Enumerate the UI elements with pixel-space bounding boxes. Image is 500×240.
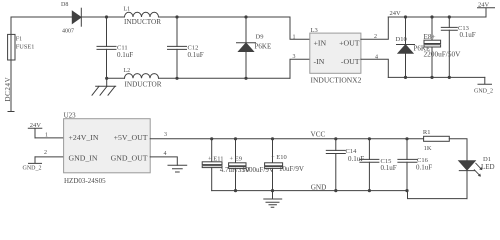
node junction C16 bottom [405, 189, 408, 192]
wire: top rail D8 to L1 [81, 16, 124, 18]
svg-text:2200uF/50V: 2200uF/50V [424, 50, 462, 59]
capacitor C12 [176, 17, 178, 46]
diode D9 (TVS) [245, 17, 247, 43]
wire: corner into pin3 [290, 59, 310, 78]
capacitor C15 [368, 139, 370, 160]
svg-text:3: 3 [164, 132, 167, 138]
svg-text:-IN: -IN [314, 57, 325, 66]
svg-text:F1: F1 [16, 37, 22, 43]
svg-text:2: 2 [374, 34, 377, 40]
port GND_2 right [478, 77, 492, 84]
wire: bottom-left rail [107, 77, 290, 79]
ground earth main [272, 191, 274, 199]
module L3 [310, 33, 361, 73]
node junction D10 top [404, 15, 407, 18]
port DC24V bar [8, 111, 14, 113]
wire: top rail L1 to corner x290 [159, 16, 291, 18]
svg-text:INDUCTOR: INDUCTOR [125, 80, 162, 88]
capacitor E9 electrolytic [235, 139, 237, 163]
svg-text:L2: L2 [124, 68, 131, 74]
svg-text:INDUCTIONX2: INDUCTIONX2 [311, 76, 362, 85]
capacitor C11 [106, 17, 108, 46]
node junction C12 top [175, 15, 178, 18]
svg-text:GND_2: GND_2 [474, 89, 493, 95]
wire: pin2 to 24V rail [361, 17, 388, 39]
node junction C13 top [448, 15, 451, 18]
svg-text:P6KE: P6KE [255, 43, 272, 51]
svg-text:GND_IN: GND_IN [69, 154, 98, 163]
svg-text:3: 3 [293, 54, 296, 60]
node junction E9 bottom [234, 189, 237, 192]
capacitor E8 electrolytic [431, 17, 433, 40]
wire: 24V rail top right [388, 16, 486, 18]
svg-text:-OUT: -OUT [341, 57, 360, 66]
inductor L1 [125, 12, 159, 17]
node junction E9 top [234, 137, 237, 140]
wire: DC24V vertical input wire [10, 17, 12, 111]
node junction C11 top [105, 15, 108, 18]
svg-text:U23: U23 [64, 112, 77, 120]
wire: bottom-right rail GND_2 net [388, 76, 485, 78]
svg-text:0.1uF: 0.1uF [188, 51, 204, 59]
svg-text:GND_OUT: GND_OUT [111, 154, 148, 163]
svg-text:HZD03-24S05: HZD03-24S05 [64, 177, 106, 185]
svg-text:24V: 24V [390, 10, 402, 17]
node junction E10 bottom [271, 189, 274, 192]
node junction C15 top [368, 137, 371, 140]
svg-text:1: 1 [45, 133, 48, 139]
wire: top rail left of D8 [11, 16, 72, 18]
port GND_2 bottom left [29, 157, 42, 164]
node junction D9 top [244, 15, 247, 18]
svg-text:+ E10: + E10 [271, 154, 287, 161]
diode D10 (TVS) [405, 17, 407, 45]
capacitor C14 [335, 139, 337, 151]
svg-text:4: 4 [375, 55, 378, 61]
node junction C14 top [334, 137, 337, 140]
svg-text:+IN: +IN [314, 39, 327, 48]
wire: corner into pin1 [290, 17, 310, 39]
diode D8 [72, 11, 81, 23]
capacitor C13 [448, 17, 450, 27]
node junction E8 top [430, 15, 433, 18]
svg-text:0.1uF: 0.1uF [460, 31, 476, 39]
svg-text:+ E9: + E9 [230, 156, 243, 163]
node junction E10 top [271, 137, 274, 140]
svg-text:+ E11: + E11 [208, 156, 224, 163]
wire: pin1 of U23 [35, 137, 64, 139]
svg-text:INDUCTOR: INDUCTOR [124, 18, 161, 26]
wire: GND rail bottom [212, 191, 467, 199]
node junction C16 top [405, 137, 408, 140]
svg-text:0.1uF: 0.1uF [117, 51, 133, 59]
wire: pin4 to bottom rail [361, 59, 388, 77]
svg-text:D8: D8 [61, 2, 68, 8]
svg-text:L3: L3 [311, 27, 318, 34]
ground chassis GND_1 [106, 78, 108, 86]
node junction C12 bottom [175, 77, 178, 80]
svg-text:DC24V: DC24V [4, 77, 12, 102]
node junction E11 top [210, 137, 213, 140]
inductor L2 [125, 74, 159, 79]
svg-text:0.1uF: 0.1uF [381, 164, 397, 172]
svg-text:2: 2 [44, 150, 47, 156]
svg-text:+24V_IN: +24V_IN [69, 133, 99, 142]
node junction D10 bottom [404, 76, 407, 79]
LED D1 [459, 161, 475, 170]
node junction gnd1 [105, 77, 108, 80]
svg-text:1: 1 [293, 35, 296, 41]
wire: R1 to LED [449, 139, 467, 161]
wire: VCC rail [150, 138, 423, 140]
svg-text:0.1uF: 0.1uF [348, 155, 364, 163]
svg-text:L1: L1 [124, 7, 131, 13]
capacitor C16 [406, 139, 408, 160]
node junction C15 bottom [368, 189, 371, 192]
svg-text:R1: R1 [423, 129, 431, 136]
capacitor E11 electrolytic [211, 139, 213, 162]
svg-text:D10: D10 [396, 36, 407, 43]
resistor R1 [424, 136, 450, 141]
svg-text:LED: LED [481, 163, 495, 171]
capacitor E10 electrolytic [272, 139, 274, 163]
svg-text:+5V_OUT: +5V_OUT [114, 133, 148, 142]
svg-text:D9: D9 [256, 34, 264, 41]
svg-text:FUSE1: FUSE1 [16, 43, 35, 50]
svg-text:4007: 4007 [62, 29, 74, 35]
wire: pin2 of U23 [35, 156, 64, 158]
node junction C14 bottom [334, 189, 337, 192]
node junction E8 bottom [430, 76, 433, 79]
svg-text:1K: 1K [424, 145, 432, 152]
fuse F1 [8, 34, 15, 60]
svg-text:GND: GND [311, 183, 327, 191]
svg-text:VCC: VCC [311, 131, 326, 139]
svg-text:10uF/9V: 10uF/9V [279, 165, 304, 173]
svg-text:0.1uF: 0.1uF [416, 163, 432, 171]
wire: pin4 to ground [150, 157, 177, 165]
module U23 [64, 119, 151, 173]
svg-text:D1: D1 [483, 156, 491, 163]
node junction D9 bottom [244, 77, 247, 80]
svg-text:E8+: E8+ [424, 33, 436, 41]
svg-text:+OUT: +OUT [339, 39, 360, 48]
svg-text:4: 4 [164, 151, 167, 157]
svg-text:GND_2: GND_2 [23, 165, 42, 171]
ground earth U23 [168, 165, 187, 172]
node junction C13 bottom [448, 76, 451, 79]
